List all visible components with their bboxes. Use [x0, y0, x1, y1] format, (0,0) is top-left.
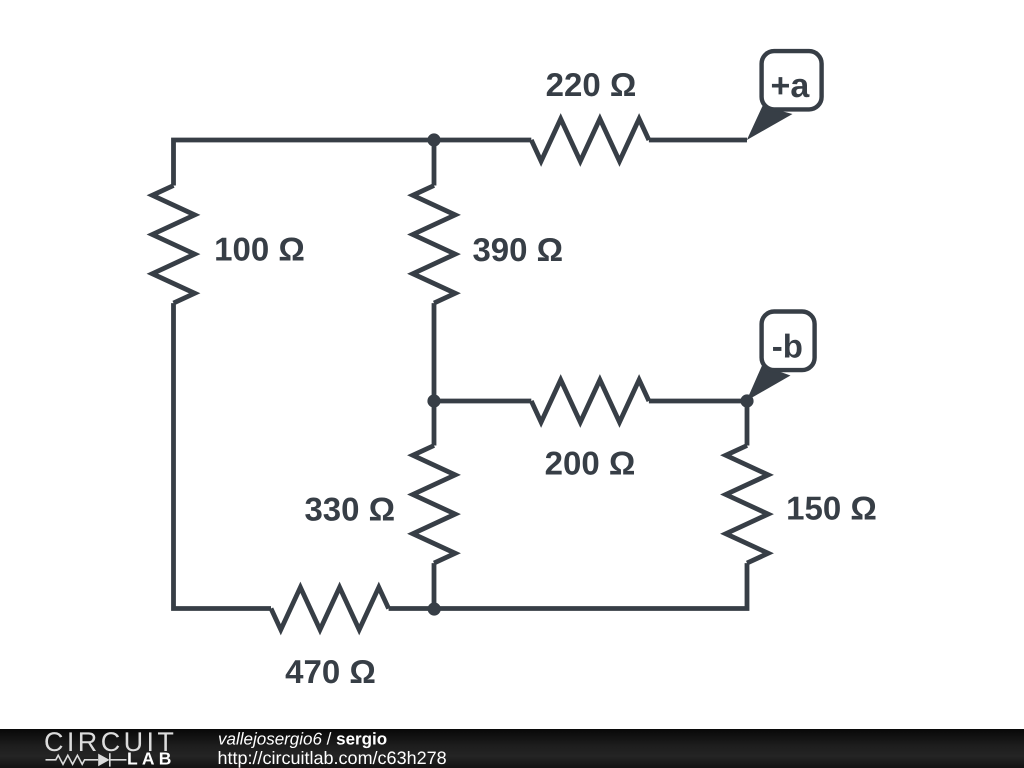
svg-text:-b: -b — [772, 327, 803, 364]
svg-text:390 Ω: 390 Ω — [472, 231, 563, 268]
svg-text:100 Ω: 100 Ω — [214, 231, 305, 268]
wire mid node to R4 — [434, 399, 531, 404]
resistor R6 150 — [726, 446, 768, 564]
wire middle rail top stub — [432, 140, 437, 186]
wire from R1 to +a terminal — [649, 138, 747, 143]
terminal flag +a box — [762, 51, 822, 109]
terminal flag +a pointer — [747, 106, 793, 140]
logo resistor-diode symbol — [46, 753, 127, 766]
logo diode triangle — [98, 754, 109, 767]
wire top horizontal from +left corner to R1 — [174, 140, 532, 186]
svg-text:LAB: LAB — [127, 749, 176, 768]
node junction middle — [427, 394, 440, 407]
resistor R1 220 — [531, 119, 649, 161]
resistor R4 200 — [531, 380, 649, 422]
svg-text:+a: +a — [771, 67, 811, 105]
terminal flag -b pointer — [747, 366, 791, 401]
svg-text:http://circuitlab.com/c63h278: http://circuitlab.com/c63h278 — [218, 748, 447, 768]
wire R5 to bottom node — [432, 563, 437, 608]
svg-text:200 Ω: 200 Ω — [545, 445, 636, 482]
resistor R7 470 — [271, 587, 389, 629]
node junction right (b) — [740, 394, 753, 407]
resistor R3 390 — [413, 186, 455, 304]
wire left rail lower and bottom-left corner — [174, 303, 272, 608]
resistor R2 100 — [152, 186, 194, 304]
svg-text:470 Ω: 470 Ω — [285, 653, 376, 690]
svg-text:vallejosergio6 / sergio: vallejosergio6 / sergio — [218, 730, 387, 749]
wire middle rail between R3 and mid node — [432, 303, 437, 401]
terminal flag -b box — [762, 312, 815, 371]
footer bar — [0, 729, 1024, 768]
svg-text:330 Ω: 330 Ω — [304, 490, 395, 527]
node junction top — [427, 133, 440, 146]
wire R6 to bottom rail with corner — [389, 563, 747, 608]
node junction bottom — [428, 602, 441, 615]
wire mid node down to R5 — [432, 401, 437, 446]
wire right node down to R6 — [745, 401, 750, 446]
resistor R5 330 — [413, 446, 455, 564]
svg-text:220 Ω: 220 Ω — [546, 66, 637, 103]
svg-text:150 Ω: 150 Ω — [786, 490, 877, 527]
wire R4 to right node — [649, 399, 747, 404]
